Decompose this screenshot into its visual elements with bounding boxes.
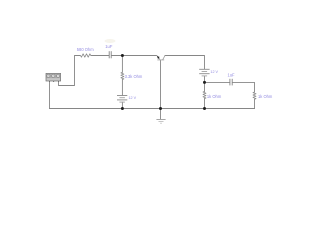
svg-text:12 V: 12 V: [129, 96, 137, 100]
wire connector right pin to top rail: [59, 56, 81, 86]
junction dot ground / bus: [159, 107, 162, 110]
svg-text:1k Ohm: 1k Ohm: [207, 94, 222, 99]
resistor R3 (vertical zigzag): [203, 91, 206, 98]
wire resistor R3 to bottom bus: [204, 99, 206, 109]
junction dot resistor R3 / bus: [203, 107, 206, 110]
svg-text:1uF: 1uF: [105, 44, 113, 49]
wire bottom ground bus: [50, 108, 255, 110]
capacitor C2: [230, 79, 232, 86]
wire resistor R4 to bottom bus: [254, 99, 256, 108]
battery V2: [199, 69, 209, 76]
capacitor C1: [109, 51, 111, 58]
wire resistor R1 to capacitor C1: [91, 55, 109, 57]
resistor R2 (vertical zigzag): [121, 72, 124, 79]
transistor Q1: [157, 55, 166, 60]
svg-text:12 V: 12 V: [210, 70, 218, 74]
node B junction dot: [203, 81, 206, 84]
faint artifact above C1 label: [105, 39, 116, 43]
battery V1: [117, 96, 127, 103]
svg-text:580 Ohm: 580 Ohm: [77, 47, 94, 52]
wire node B down to resistor R3: [204, 82, 206, 91]
wire battery V2 to node B: [204, 76, 206, 82]
wire node B to capacitor C2: [205, 81, 230, 83]
wire capacitor C2 to resistor R4: [232, 82, 254, 92]
wire resistor R2 to battery V1: [121, 80, 123, 96]
wire transistor collector to battery V2: [165, 56, 205, 69]
wire connector left pin down to bottom bus: [49, 81, 51, 109]
svg-text:1uF: 1uF: [227, 72, 235, 77]
junction dot battery V1 / bus: [121, 107, 124, 110]
svg-text:1k Ohm: 1k Ohm: [258, 94, 273, 99]
wire node A down to resistor R2: [121, 56, 123, 73]
ground: [156, 120, 165, 124]
wire battery V1 to bottom bus: [121, 102, 123, 108]
node A junction dot: [121, 54, 124, 57]
connector J1 (3-terminal block): [46, 73, 61, 82]
svg-text:3.3k Ohm: 3.3k Ohm: [125, 74, 143, 79]
resistor R4 (vertical zigzag): [253, 92, 256, 99]
wire transistor base down to bottom bus: [160, 60, 162, 108]
wire capacitor C1 to transistor emitter: [112, 55, 157, 57]
resistor R1 (horizontal zigzag): [80, 54, 91, 57]
wire ground stub: [160, 109, 162, 119]
